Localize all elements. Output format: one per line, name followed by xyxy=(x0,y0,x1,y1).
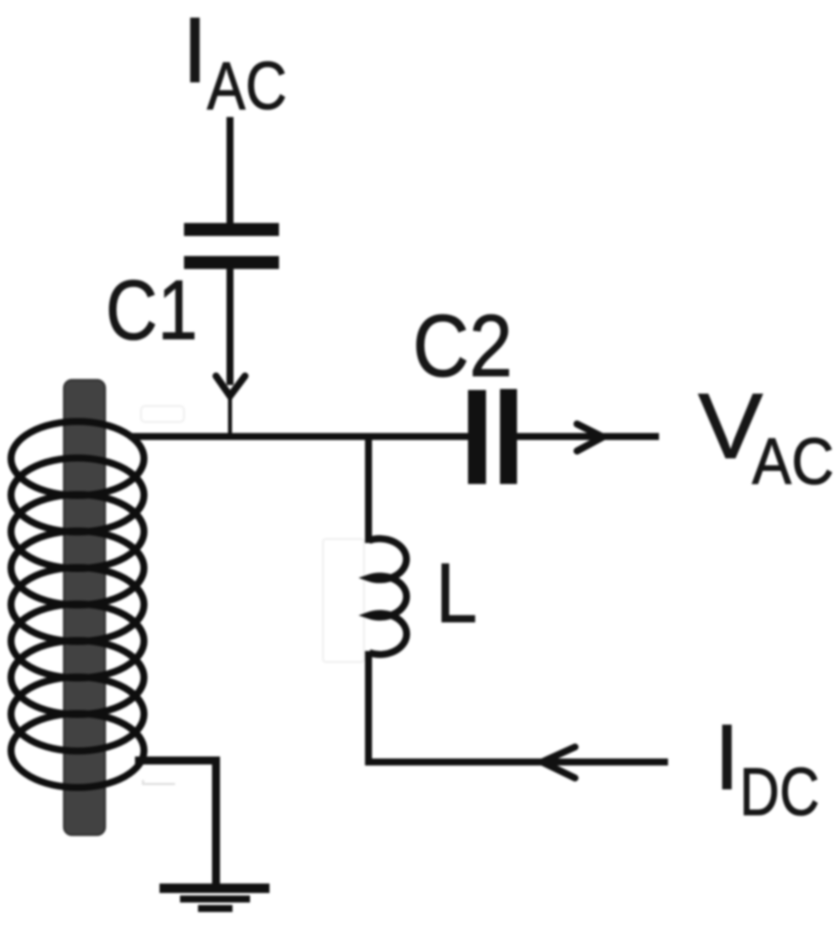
arrowhead toward node (I_DC direction) xyxy=(542,747,575,778)
wire L down and right to I_DC xyxy=(369,651,669,762)
arrowhead down into node xyxy=(216,376,245,434)
wire from C1 down to node xyxy=(227,269,234,385)
svg-text:AC: AC xyxy=(752,424,834,498)
svg-text:DC: DC xyxy=(740,754,820,830)
ferrite core xyxy=(64,380,105,835)
svg-text:AC: AC xyxy=(207,48,287,124)
svg-text:I: I xyxy=(182,0,208,102)
coil winding (9 turns) xyxy=(11,422,144,788)
wire from I_AC to C1 xyxy=(227,117,234,225)
label I_DC xyxy=(714,705,820,830)
arrowhead toward V_AC xyxy=(577,424,603,451)
ground xyxy=(160,884,270,913)
svg-text:C1: C1 xyxy=(106,263,198,357)
coil bottom lead to ground xyxy=(135,761,216,885)
svg-text:L: L xyxy=(436,546,478,640)
svg-text:C2: C2 xyxy=(413,296,513,395)
capacitor C1 xyxy=(184,223,279,269)
wire C2 to V_AC xyxy=(517,433,659,440)
label V_AC xyxy=(698,374,834,498)
svg-text:I: I xyxy=(714,705,740,809)
inductor L xyxy=(369,539,407,655)
label I_AC xyxy=(182,0,287,124)
node wire (coil top to C2) xyxy=(129,433,468,440)
capacitor C2 xyxy=(468,389,517,484)
wire node down to inductor L xyxy=(365,433,372,543)
